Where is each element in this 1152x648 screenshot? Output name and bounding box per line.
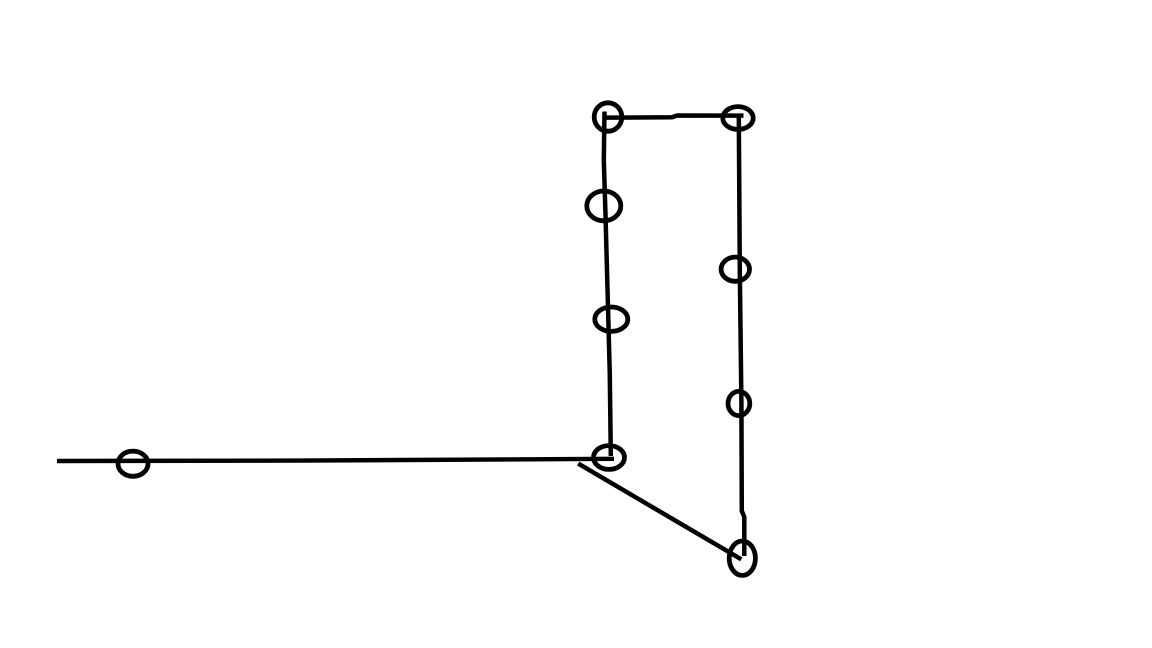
node H (lower circle on right vertical wire) (728, 391, 750, 415)
node D (upper circle on left vertical wire) (587, 191, 621, 221)
wire: top horizontal from node C to node F (605, 116, 744, 118)
node A (circle on long horizontal wire) (118, 451, 148, 476)
node E (lower circle on left vertical wire) (595, 307, 628, 331)
node I (bottom-right) (729, 541, 755, 575)
wire: left vertical from node C down to node B (604, 112, 611, 457)
node C (top-left) (594, 103, 622, 131)
node F (top-right) (723, 107, 753, 130)
node B (junction of horizontal, vertical and diagonal wires) (594, 446, 625, 470)
node G (upper circle on right vertical wire) (721, 257, 749, 281)
wire: right vertical from node F down to node I (739, 117, 745, 556)
wire: long horizontal from left edge to junction node B (57, 459, 614, 461)
wire: diagonal from below node B to node I (578, 464, 741, 560)
